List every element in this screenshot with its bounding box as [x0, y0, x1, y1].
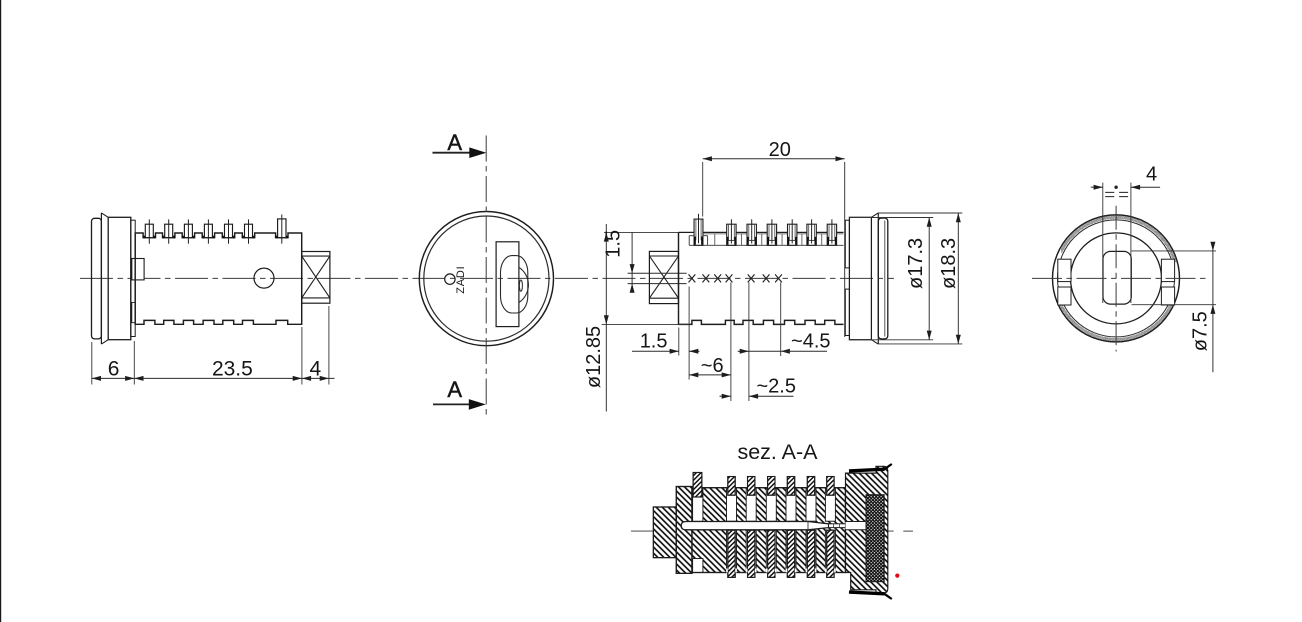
front view outer circle — [419, 212, 553, 346]
pin 5 left view — [222, 219, 235, 243]
knurl insert cross hatch — [866, 495, 884, 582]
ring notch left top — [1058, 259, 1071, 281]
svg-text:~2.5: ~2.5 — [756, 376, 795, 398]
svg-text:ø7.5: ø7.5 — [1189, 311, 1211, 351]
front view inner circle — [424, 216, 549, 341]
dim 1.5 bottom — [632, 349, 700, 354]
svg-text:sez. A-A: sez. A-A — [737, 440, 818, 464]
section arrow bottom — [433, 399, 486, 410]
spring box middle view — [649, 251, 678, 303]
pin 3 left view — [182, 219, 195, 243]
section pin 6 bottom — [807, 530, 814, 577]
pin 4 middle view — [767, 219, 776, 245]
pin 7 middle view — [827, 219, 836, 245]
left view: cylinder side (pins up) — [92, 213, 145, 344]
cap knurl body — [108, 217, 131, 339]
section arrow top — [433, 147, 487, 158]
pin 4 left view — [202, 219, 215, 243]
section left block — [653, 507, 676, 558]
ring notch right top — [1161, 259, 1174, 281]
pin 3 middle view — [747, 219, 756, 245]
red dot — [895, 574, 899, 578]
chamber floor line — [689, 244, 844, 246]
chamber divider ticks — [703, 234, 844, 246]
pin chambers white — [693, 489, 836, 573]
spring box left view — [302, 252, 330, 304]
pin 7 left view (tall) — [276, 215, 288, 244]
svg-text:4: 4 — [1146, 163, 1157, 185]
right view centerline horizontal — [1032, 277, 1208, 279]
section pin 2 bottom — [728, 530, 735, 577]
dim 4 witness lines — [1103, 183, 1131, 303]
ring notch right bottom — [1161, 287, 1174, 305]
cap collar — [131, 220, 135, 336]
key blade — [681, 522, 845, 530]
cap chamfer top — [101, 213, 108, 217]
scan edge bar left — [0, 0, 1, 622]
dim 1.5 keyway — [630, 232, 635, 292]
dimension 6 23.5 4 witness lines — [92, 306, 329, 385]
cap chamfer bottom — [101, 340, 108, 344]
dim dia18.3 — [878, 213, 962, 344]
svg-text:A: A — [447, 130, 462, 155]
key lens — [519, 280, 522, 291]
right view centerline vertical — [1115, 206, 1117, 352]
cap rim — [92, 218, 102, 339]
svg-text:1.5: 1.5 — [640, 331, 668, 353]
svg-text:23.5: 23.5 — [212, 357, 253, 380]
dim ~6 — [689, 372, 731, 377]
dim ~2.5 — [720, 394, 794, 399]
svg-text:ø17.3: ø17.3 — [905, 238, 927, 289]
section pin 7 top — [827, 477, 834, 496]
pin 5 middle view — [788, 219, 797, 245]
centerline main views — [80, 277, 894, 279]
dim ~4.5 — [738, 349, 827, 354]
pin 6 left view — [242, 219, 255, 243]
cap keyway channel — [846, 522, 867, 530]
section cap — [846, 466, 888, 593]
svg-text:ø12.85: ø12.85 — [583, 326, 605, 388]
dim 4 line — [1091, 185, 1160, 190]
section pin 7 bottom — [827, 530, 834, 577]
cap lower strip — [132, 302, 135, 322]
svg-text:A: A — [447, 377, 462, 402]
section centerline — [631, 530, 894, 532]
section pin 5 top — [787, 477, 794, 496]
section pin 2 top — [728, 477, 735, 496]
right view inner circle — [1071, 233, 1162, 324]
bottom slot notches — [726, 569, 836, 573]
witness lines bottom dims — [679, 283, 781, 402]
svg-text:4: 4 — [310, 357, 322, 380]
pin 2 left view — [163, 219, 176, 243]
knurl ring ticks — [1058, 216, 1177, 342]
section main body — [692, 488, 846, 573]
cap middle view — [845, 162, 888, 344]
keyway slot lines — [628, 272, 687, 274]
section pin 3 bottom — [748, 530, 755, 577]
section pin 6 top — [807, 477, 814, 496]
right view outer circle — [1053, 215, 1180, 342]
svg-text:6: 6 — [108, 357, 120, 380]
pin 1 middle view (tall) — [689, 214, 707, 246]
svg-text:20: 20 — [769, 139, 791, 161]
section line A-A — [485, 136, 487, 419]
pin 6 middle view — [807, 219, 816, 245]
cap tab — [132, 259, 144, 280]
body top edge segments — [679, 231, 844, 233]
key bow ellipse — [501, 256, 528, 313]
section pin 3 top — [748, 477, 755, 496]
dim dia7.5 — [1132, 242, 1217, 373]
drive hole circle — [254, 268, 274, 288]
section pin 4 bottom — [768, 530, 775, 577]
keyhole capsule — [1103, 251, 1131, 304]
section pin 1 — [693, 473, 702, 498]
dim dia17.3 — [849, 218, 933, 340]
cap lip line — [100, 213, 102, 344]
equal marks — [1105, 192, 1128, 196]
ring notch left bottom — [1058, 287, 1071, 305]
dim dia12.85 — [602, 224, 689, 412]
pin 1 left view — [143, 219, 156, 243]
keyway plate rect — [496, 242, 519, 327]
section step block — [676, 487, 692, 574]
svg-text:~6: ~6 — [701, 355, 724, 377]
dim 20 — [703, 156, 845, 216]
pin 2 middle view — [727, 219, 736, 245]
svg-text:~4.5: ~4.5 — [791, 331, 830, 353]
cylinder body outline left view — [135, 233, 302, 324]
right view knurl ring — [1058, 220, 1175, 337]
svg-text:ø18.3: ø18.3 — [938, 238, 960, 289]
logo dot circle — [445, 274, 455, 284]
svg-text:1.5: 1.5 — [602, 230, 624, 258]
seal bottom — [849, 592, 885, 594]
key arc — [519, 267, 529, 302]
x marks on centerline — [689, 274, 782, 282]
dimension line 6 / 23.5 / 4 — [92, 376, 335, 381]
svg-text:ZADI: ZADI — [455, 265, 467, 293]
cylinder body outline middle view — [679, 232, 844, 324]
section pin 5 bottom — [787, 530, 794, 577]
seal top — [849, 469, 885, 471]
section pin 4 top — [768, 477, 775, 496]
